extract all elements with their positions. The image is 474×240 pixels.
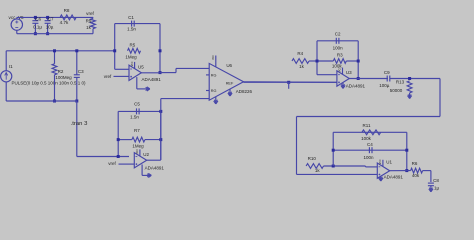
svg-text:C4: C4 [367,142,373,147]
svg-text:vref: vref [108,161,116,166]
svg-text:1k: 1k [315,168,321,173]
svg-text:100µ: 100µ [379,83,390,88]
svg-text:1.5n: 1.5n [127,27,136,32]
svg-text:R6: R6 [412,161,418,166]
svg-text:I1: I1 [9,64,13,69]
svg-text:1k: 1k [299,64,305,69]
svg-text:1k: 1k [86,25,92,30]
svg-text:vcc: vcc [338,67,342,72]
svg-text:1.5n: 1.5n [130,115,139,120]
svg-text:ADA4891: ADA4891 [145,165,165,170]
svg-text:vcc: vcc [130,61,134,66]
svg-text:1Meg: 1Meg [125,54,137,59]
svg-text:vref: vref [104,74,112,79]
svg-text:C8: C8 [433,178,439,183]
svg-text:U1: U1 [386,159,392,164]
svg-text:R4: R4 [297,51,303,56]
svg-text:vcc: vcc [378,159,382,164]
svg-text:100n: 100n [363,155,374,160]
svg-text:C9: C9 [384,70,390,75]
svg-text:R13: R13 [396,80,405,85]
svg-text:50000: 50000 [390,88,403,93]
svg-text:40k: 40k [412,173,420,178]
svg-text:1Meg: 1Meg [132,144,144,149]
svg-text:100k: 100k [361,136,372,141]
svg-text:R10: R10 [308,156,317,161]
svg-text:REF: REF [226,81,234,85]
svg-text:RG: RG [211,73,217,77]
svg-text:R7: R7 [134,128,140,133]
svg-text:C2: C2 [335,31,341,36]
svg-text:U3: U3 [346,70,352,75]
svg-text:C6: C6 [35,16,41,21]
svg-text:vcc: vcc [211,55,215,60]
svg-text:R9: R9 [86,19,92,24]
svg-text:C7: C7 [48,16,54,21]
svg-text:R11: R11 [363,123,371,128]
svg-text:ADA4891: ADA4891 [384,175,404,180]
svg-text:U5: U5 [138,65,144,70]
svg-text:R5: R5 [130,42,136,47]
svg-text:10µ: 10µ [46,25,54,30]
svg-text:C3: C3 [78,69,84,74]
svg-text:RG: RG [211,89,217,93]
svg-text:4.7k: 4.7k [60,20,69,25]
svg-text:0.1µ: 0.1µ [33,25,42,30]
svg-text:vcc: vcc [9,15,17,20]
svg-text:PULSE(0 10p 0.5 100n 100n 0.5: PULSE(0 10p 0.5 100n 100n 0.5 1 0) [12,80,87,85]
svg-text:100n: 100n [333,46,344,51]
svg-text:C1: C1 [128,15,134,20]
svg-text:R2: R2 [58,69,64,74]
svg-text:100Meg: 100Meg [55,75,72,80]
svg-text:ADA4891: ADA4891 [142,77,162,82]
svg-text:vref: vref [86,11,94,16]
svg-text:1µ: 1µ [434,186,440,191]
svg-text:U2: U2 [143,152,149,157]
svg-text:C5: C5 [134,102,140,107]
svg-text:AD8226: AD8226 [236,89,253,94]
svg-text:vcc: vcc [135,149,139,154]
svg-text:R3: R3 [337,52,343,57]
svg-text:ADA4891: ADA4891 [346,83,366,88]
svg-text:R8: R8 [64,8,70,13]
svg-text:.tran 3: .tran 3 [71,121,88,127]
svg-text:U6: U6 [226,63,232,68]
